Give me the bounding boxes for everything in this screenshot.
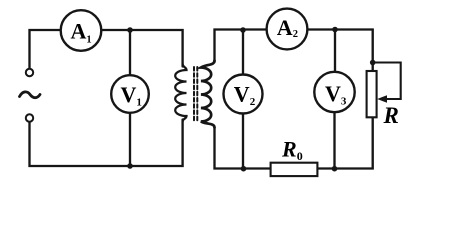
terminal upper [26,69,33,76]
node junction V3 bottom [332,166,338,172]
wiper arrow [377,95,387,103]
voltmeter V2 [224,75,263,114]
transformer secondary coil [201,61,215,128]
node junction V3 top [332,27,338,33]
ammeter A2 [267,9,308,50]
resistor R0 [271,163,318,176]
wire V2 branch top [242,30,244,74]
node junction bottom V1 [127,163,133,169]
ammeter A1 [61,10,102,51]
terminal lower [26,114,33,121]
wire R0 to bottom-right corner [317,117,372,168]
svg-text:R: R [383,103,399,128]
node junction V2 bottom [241,166,247,172]
rheostat R body [367,71,377,117]
node junction top A1-V1 [127,27,133,33]
wire V1 branch top [129,30,131,76]
wire V1 branch bottom [129,113,131,166]
wire V3 branch top [334,30,336,73]
wire rheostat wiper loop [373,63,401,100]
node junction V2 top [240,27,246,33]
voltmeter V3 [314,72,354,112]
wire V3 branch bottom [333,112,335,168]
wire secondary bottom [215,128,271,169]
wire top-left: source to A1 [30,30,61,69]
node junction rheostat top [370,60,376,66]
ac source ~ [20,92,41,98]
voltmeter V1 [111,75,149,113]
transformer core [194,67,197,122]
wire secondary top [215,30,267,63]
wire left-bottom: source down and along bottom [30,120,183,167]
transformer primary coil [175,64,186,122]
svg-text:R0: R0 [281,137,303,164]
wire A1 to transformer primary top [101,30,182,67]
wire V2 branch bottom [242,114,244,169]
wire A2 to top-right corner [308,30,373,72]
